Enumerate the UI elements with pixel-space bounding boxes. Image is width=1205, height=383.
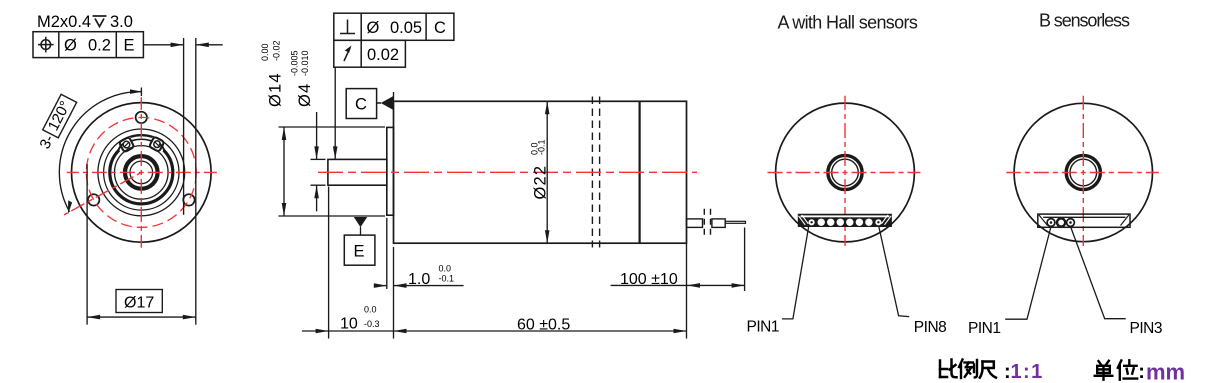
view B center hole inner bbox=[1070, 159, 1097, 186]
svg-text:Ø17: Ø17 bbox=[124, 295, 154, 312]
inner bore circle bbox=[115, 146, 169, 200]
10 dimension bbox=[302, 330, 329, 332]
svg-text:-0.02: -0.02 bbox=[272, 40, 282, 61]
bearing thick ring bbox=[125, 156, 158, 189]
centerline vertical red bbox=[140, 97, 142, 247]
cable break dashes bbox=[703, 209, 705, 236]
svg-text::: : bbox=[1138, 361, 1145, 383]
100 dimension bbox=[611, 284, 745, 286]
leader line from M2 frame bbox=[143, 44, 183, 46]
centerline tick above circle bbox=[140, 88, 142, 97]
svg-text:PIN1: PIN1 bbox=[747, 319, 779, 336]
leader PIN3 B bbox=[1071, 227, 1126, 319]
dia4 extension ticks bbox=[311, 158, 326, 160]
view A center hole ring bbox=[828, 155, 862, 189]
clip screw boss left bbox=[119, 137, 134, 152]
position tolerance frame bbox=[33, 32, 143, 58]
cable segment 2 bbox=[712, 219, 725, 228]
svg-text:60 ±0.5: 60 ±0.5 bbox=[517, 316, 570, 333]
view A red centerline horizontal bbox=[767, 172, 921, 174]
dia14 extension top bbox=[279, 126, 386, 128]
svg-text:E: E bbox=[124, 37, 135, 55]
svg-text:Ø: Ø bbox=[64, 37, 77, 55]
hole tangent line left bbox=[183, 38, 185, 215]
cable segment 1 bbox=[687, 219, 703, 228]
svg-text:B sensorless: B sensorless bbox=[1039, 11, 1130, 31]
clip hook right bbox=[159, 144, 164, 151]
position symbol bbox=[41, 40, 51, 50]
screw left slot bbox=[124, 142, 128, 146]
view B connector strip bbox=[1038, 214, 1130, 227]
view B outer circle bbox=[1014, 103, 1152, 241]
recess circle bbox=[104, 135, 179, 210]
hanzi chi (drawn) bbox=[980, 362, 996, 378]
centerline horizontal red bbox=[67, 171, 217, 173]
view B center hole ring bbox=[1066, 155, 1100, 189]
svg-text:C: C bbox=[355, 96, 367, 114]
view A connector strip bbox=[798, 214, 892, 227]
leader PIN1 A bbox=[782, 227, 809, 319]
svg-text:0.0: 0.0 bbox=[364, 305, 377, 315]
svg-text:E: E bbox=[354, 243, 365, 261]
front view outer circle (motor body O22) bbox=[72, 103, 212, 243]
leader PIN8 A bbox=[879, 227, 909, 317]
svg-text:-0.1: -0.1 bbox=[537, 139, 547, 155]
svg-text:1:1: 1:1 bbox=[1011, 361, 1044, 383]
bolt circle red dashed bbox=[86, 117, 196, 227]
cable wire end bbox=[725, 221, 745, 223]
dia17 dimension line bbox=[87, 316, 196, 318]
svg-text:0.0: 0.0 bbox=[439, 264, 452, 274]
shaft bbox=[328, 159, 387, 185]
clip screw boss right bbox=[149, 136, 164, 151]
datum E box bbox=[344, 235, 375, 265]
1.0 ext lines bbox=[386, 218, 388, 289]
svg-text:-0.3: -0.3 bbox=[364, 319, 380, 329]
clip hook left bbox=[118, 144, 123, 151]
svg-text:M2x0.4: M2x0.4 bbox=[37, 13, 91, 31]
shaft circle bbox=[130, 161, 153, 184]
svg-text:10: 10 bbox=[340, 315, 358, 332]
side view red centerline bbox=[318, 171, 697, 173]
mounting hole lower-left bbox=[88, 194, 99, 205]
svg-text:0.00: 0.00 bbox=[260, 43, 270, 61]
GDT leader to shaft bbox=[334, 67, 336, 159]
angle dimension arc 120deg bbox=[59, 92, 141, 212]
screw left bbox=[123, 141, 130, 148]
runout symbol arrow bbox=[344, 48, 350, 61]
screw right bbox=[154, 141, 161, 148]
svg-text:-0.005: -0.005 bbox=[290, 50, 300, 76]
front face datum extension above bbox=[393, 92, 395, 101]
svg-text:0.02: 0.02 bbox=[367, 46, 399, 64]
front face pilot circle bbox=[98, 129, 185, 216]
svg-text:-0.010: -0.010 bbox=[300, 50, 310, 76]
shaft end extension line bbox=[328, 187, 330, 339]
svg-text:-0.1: -0.1 bbox=[439, 274, 455, 284]
datum E triangle bbox=[354, 217, 367, 227]
hole tangent line right / dia17 right extension bbox=[195, 38, 197, 325]
svg-text:A with Hall sensors: A with Hall sensors bbox=[778, 13, 918, 33]
svg-text:100 ±10: 100 ±10 bbox=[620, 271, 678, 288]
dia4 dimension with outside arrows bbox=[316, 112, 318, 159]
datum C triangle bbox=[381, 96, 394, 110]
arc arrow top bbox=[130, 89, 143, 94]
svg-text:PIN8: PIN8 bbox=[914, 319, 946, 336]
svg-text:0.2: 0.2 bbox=[88, 37, 111, 55]
svg-text:Ø14: Ø14 bbox=[267, 72, 285, 107]
datum C box bbox=[346, 89, 381, 119]
cable end extension bbox=[744, 228, 746, 292]
view B red centerline horizontal bbox=[1006, 172, 1159, 174]
hanzi dan (drawn) bbox=[1095, 361, 1113, 380]
svg-text:Ø: Ø bbox=[367, 19, 380, 37]
runout frame bbox=[334, 40, 406, 67]
clip bridge top bbox=[130, 135, 152, 137]
leader PIN1 B bbox=[1005, 227, 1051, 320]
angle label 3-120 rotated bbox=[36, 94, 78, 152]
dia14 dimension line bbox=[283, 127, 285, 216]
svg-text:PIN1: PIN1 bbox=[968, 320, 1000, 337]
body break dashed line 1 bbox=[591, 97, 593, 248]
svg-text:Ø22: Ø22 bbox=[532, 165, 550, 200]
hanzi li (drawn) bbox=[959, 360, 977, 379]
svg-text:0.05: 0.05 bbox=[390, 19, 422, 37]
dia17 label box bbox=[116, 290, 162, 313]
svg-text:C: C bbox=[434, 19, 446, 37]
view A outer circle bbox=[776, 103, 915, 242]
svg-text:mm: mm bbox=[1146, 360, 1185, 383]
1.0 dimension bbox=[379, 285, 387, 287]
hanzi wei (drawn) bbox=[1118, 360, 1137, 379]
svg-text:PIN3: PIN3 bbox=[1130, 320, 1162, 337]
svg-text:1.0: 1.0 bbox=[408, 271, 430, 288]
view B red centerline vertical bbox=[1082, 96, 1084, 246]
dia22 dimension line bbox=[546, 101, 548, 243]
perpendicularity frame bbox=[334, 13, 454, 40]
dia17 left extension line bbox=[86, 164, 88, 325]
body break dashed line 2 bbox=[599, 97, 601, 248]
perpendicularity symbol bbox=[347, 20, 349, 34]
rear cap joint line bbox=[638, 101, 640, 243]
dia14 extension bottom bbox=[279, 215, 386, 217]
view A red centerline vertical bbox=[844, 96, 846, 246]
mounting hole top bbox=[136, 112, 147, 123]
hanzi bi (drawn) bbox=[940, 360, 957, 378]
screw right slot bbox=[155, 142, 159, 146]
rear face extension below bbox=[686, 243, 688, 338]
motor body outline bbox=[394, 101, 687, 243]
centerline diagonal red to lower-left hole bbox=[64, 172, 141, 215]
arc arrow bottom bbox=[68, 200, 72, 214]
60 dimension line bbox=[394, 330, 687, 332]
retaining ring thick arc bbox=[110, 150, 173, 204]
svg-text:3.0: 3.0 bbox=[110, 13, 133, 31]
view A center hole inner bbox=[832, 159, 859, 186]
depth symbol bbox=[93, 16, 107, 27]
svg-text:Ø4: Ø4 bbox=[296, 83, 314, 107]
front flange plate bbox=[387, 127, 394, 215]
mounting hole lower-right bbox=[183, 194, 194, 205]
